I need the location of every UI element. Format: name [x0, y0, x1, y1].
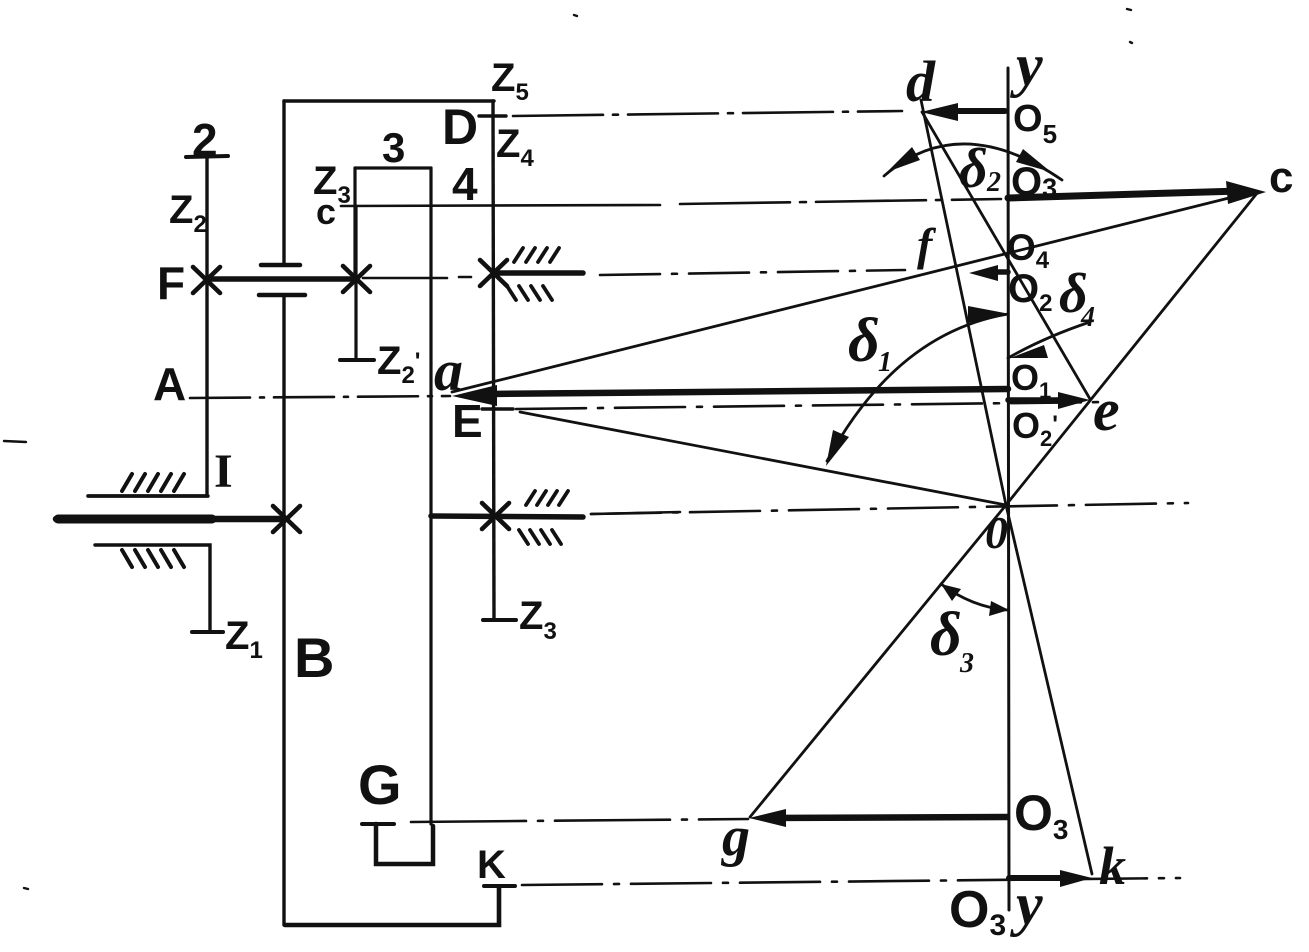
- gear mesh bar bottom: [259, 293, 305, 298]
- vector O2-f: [986, 269, 1008, 275]
- arrowhead c: [1226, 181, 1266, 204]
- arrowhead d: [921, 103, 958, 121]
- svg-text:c: c: [1269, 153, 1293, 202]
- svg-text:3: 3: [382, 124, 405, 171]
- arrowhead delta1 upper: [968, 306, 1010, 323]
- carrier B top edge: [284, 99, 494, 102]
- svg-text:δ: δ: [930, 601, 962, 669]
- svg-text:e: e: [1093, 377, 1120, 443]
- pole axis dash-dot: [591, 503, 1188, 514]
- axis line A level: [190, 396, 450, 398]
- gear G T-bar: [362, 822, 394, 826]
- bearing cross X5: [482, 503, 509, 529]
- svg-text:A: A: [153, 358, 186, 410]
- arrowhead f: [969, 265, 998, 281]
- shaft 2 top cap: [186, 156, 228, 157]
- gear G claw: [376, 824, 433, 864]
- shaft F thick: [206, 276, 357, 282]
- arrowhead e: [1058, 392, 1090, 409]
- upper support ledge: [88, 494, 208, 497]
- svg-text:4: 4: [452, 158, 478, 210]
- arrowhead delta3 right: [989, 601, 1009, 616]
- svg-text:1: 1: [878, 347, 892, 378]
- hatching below X3 support: [507, 286, 552, 300]
- svg-text:δ: δ: [959, 138, 988, 200]
- arrowhead delta1 lower: [826, 430, 849, 466]
- ray 0-k: [1006, 505, 1092, 874]
- ray 0-e-c: [1006, 192, 1258, 505]
- arc delta2: [884, 144, 1062, 180]
- hatching lower ledge: [122, 550, 184, 567]
- ray 0-E: [520, 412, 1006, 505]
- ray 0-f-d: [921, 100, 1006, 505]
- svg-text:k: k: [1099, 836, 1126, 896]
- axis line c level: [341, 205, 660, 206]
- svg-text:g: g: [720, 806, 750, 868]
- svg-text:D: D: [442, 99, 478, 155]
- fixed support shaft at X3: [495, 270, 583, 276]
- svg-text:3: 3: [959, 648, 974, 679]
- link 3 left edge: [353, 168, 356, 280]
- arrowhead a: [452, 385, 497, 406]
- arc delta4: [1008, 322, 1090, 358]
- arrowhead delta3 left: [941, 584, 961, 601]
- axis line D level: [513, 111, 902, 116]
- carrier B left edge: [282, 101, 285, 925]
- vector O1-a: [488, 389, 1008, 394]
- vector O3-c: [1008, 191, 1240, 198]
- link 3 top edge: [355, 166, 431, 169]
- svg-text:δ: δ: [848, 307, 880, 375]
- vector O3-g: [765, 817, 1007, 818]
- gear Z2' T-bar: [340, 358, 374, 362]
- axis line F level dashes: [600, 270, 905, 275]
- line d-e: [922, 112, 1090, 399]
- ray 0-g: [750, 505, 1006, 817]
- bearing cross X1: [193, 267, 220, 293]
- svg-text:a: a: [434, 338, 463, 403]
- arrowhead delta2 left: [887, 147, 920, 172]
- arrowhead delta4: [1010, 345, 1048, 358]
- axis stub right of X5: [591, 512, 680, 514]
- bearing cross X4: [273, 506, 300, 532]
- axis line c dashes: [680, 199, 1001, 204]
- gear Z3 lower T-bar: [483, 618, 516, 622]
- axis line K level: [522, 878, 1180, 885]
- axis line G level: [411, 819, 748, 822]
- arc delta1: [827, 314, 1008, 461]
- carrier B right edge: [493, 101, 494, 620]
- hatching below X5: [519, 530, 561, 544]
- bearing cross X2: [343, 266, 370, 292]
- hatching above X5: [526, 491, 568, 505]
- hatching above X3 support: [514, 248, 559, 262]
- gear mesh bar top: [261, 263, 300, 268]
- svg-text:F: F: [157, 257, 185, 309]
- gear 3 shaft vertical: [354, 206, 357, 360]
- arc delta3: [941, 584, 1007, 610]
- gear E tick: [482, 407, 513, 410]
- lower support ledge: [95, 545, 210, 632]
- shaft 2 vertical line: [88, 156, 207, 496]
- bearing cross X3: [480, 260, 507, 286]
- svg-text:2: 2: [986, 167, 1001, 198]
- arrowhead k: [1060, 870, 1092, 887]
- carrier B bottom edge: [285, 887, 499, 925]
- paper specks: [4, 9, 1132, 889]
- gear Z1 T-bar: [192, 630, 223, 634]
- vector O5-d: [938, 108, 1005, 114]
- arrowhead delta2 right: [1016, 149, 1051, 172]
- svg-text:I: I: [214, 445, 233, 498]
- axis line E level: [516, 402, 1105, 409]
- fixed support shaft at X5: [431, 516, 583, 517]
- svg-text:B: B: [294, 626, 334, 689]
- svg-text:2: 2: [192, 114, 218, 166]
- vector O3-k: [1009, 875, 1078, 881]
- input shaft thick: [56, 516, 285, 523]
- link 3 right edge: [429, 168, 432, 824]
- svg-text:K: K: [477, 843, 506, 887]
- hatching upper ledge: [122, 474, 184, 491]
- gear D tick: [479, 114, 506, 117]
- svg-text:G: G: [358, 753, 402, 816]
- axis line F mid segment: [363, 277, 471, 278]
- gear K T-bar: [484, 884, 515, 888]
- vector O2p-e: [1008, 397, 1075, 403]
- svg-text:c: c: [316, 191, 336, 232]
- velocity axis y: [1008, 68, 1009, 910]
- line a-f-c: [452, 191, 1257, 392]
- arrowhead g: [749, 809, 786, 827]
- svg-text:4: 4: [1080, 302, 1095, 333]
- svg-text:E: E: [452, 395, 483, 447]
